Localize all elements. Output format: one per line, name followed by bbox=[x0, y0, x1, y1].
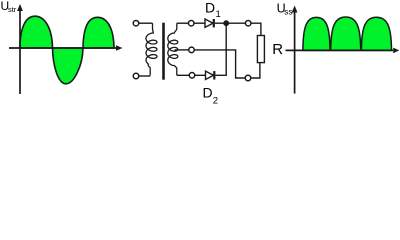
wire from D1 to junction and output bbox=[215, 22, 246, 24]
wire from D2 up to junction bbox=[216, 23, 227, 75]
secondary centre tap wire bbox=[175, 49, 189, 51]
secondary winding bbox=[168, 23, 178, 75]
core bbox=[162, 23, 165, 80]
left plot vertical axis bbox=[17, 4, 23, 94]
secondary bottom terminal bbox=[189, 73, 195, 79]
wire bbox=[139, 22, 153, 24]
wire to D2 bbox=[195, 74, 206, 76]
transformer primary terminal top bbox=[133, 20, 139, 26]
output terminal bottom bbox=[245, 75, 251, 81]
svg-text:D: D bbox=[203, 85, 213, 101]
wire top output to R bbox=[251, 23, 261, 35]
resistor R bbox=[257, 36, 264, 63]
input sine wave (green) bbox=[20, 16, 114, 84]
left plot horizontal axis bbox=[9, 45, 123, 51]
svg-text:R: R bbox=[272, 41, 283, 58]
right plot vertical axis bbox=[292, 6, 298, 94]
junction node bbox=[223, 20, 229, 26]
diode D2 bbox=[206, 71, 215, 79]
secondary bottom tap wire bbox=[177, 74, 190, 76]
diode D1 bbox=[205, 19, 214, 27]
secondary top tap wire bbox=[177, 22, 189, 24]
centre tap wire to bottom output bbox=[194, 50, 245, 78]
secondary centre terminal bbox=[189, 47, 195, 53]
wire to D1 bbox=[194, 22, 205, 24]
wire R to bottom output bbox=[251, 63, 260, 78]
output terminal top bbox=[245, 20, 251, 26]
primary winding bbox=[146, 23, 157, 75]
svg-text:2: 2 bbox=[213, 96, 218, 107]
secondary top terminal bbox=[188, 20, 194, 26]
svg-text:D: D bbox=[205, 0, 215, 16]
wire bbox=[139, 75, 151, 77]
output waveform (green humps) bbox=[303, 17, 392, 50]
transformer primary terminal bottom bbox=[133, 73, 139, 79]
right plot horizontal axis bbox=[286, 48, 400, 54]
svg-text:1: 1 bbox=[216, 9, 221, 20]
